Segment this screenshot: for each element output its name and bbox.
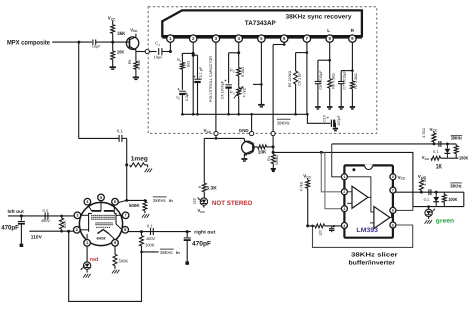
LED green stub [428, 207, 430, 210]
label GND terminal [239, 128, 249, 133]
resistor R2 9.1k [230, 67, 245, 77]
label green [436, 219, 455, 225]
wire tube pin1 drop [86, 246, 88, 262]
svg-text:1K: 1K [436, 164, 442, 171]
LM393 pin 1 [341, 174, 347, 180]
wire collector rail [204, 138, 244, 183]
svg-text:R8 3.3kΩ: R8 3.3kΩ [331, 73, 335, 89]
wire 500K pin9 to ground [114, 266, 116, 269]
svg-text:L: L [327, 28, 330, 33]
ground below R9 [133, 77, 139, 79]
svg-text:4.7kΩ: 4.7kΩ [423, 176, 427, 186]
label right out [194, 229, 215, 235]
node 10K junction [272, 145, 275, 148]
svg-text:7: 7 [392, 189, 394, 193]
wire VCC terminal stub [215, 136, 218, 140]
rail junction [192, 113, 195, 116]
node Hx junction [272, 151, 275, 154]
ground rail inside box [182, 113, 307, 115]
label 38KHz in upper [153, 197, 173, 203]
ground pin5 [258, 105, 264, 107]
label 1K [436, 164, 442, 171]
svg-text:LM393: LM393 [356, 227, 378, 234]
op-amp A triangle [344, 177, 371, 209]
svg-text:C4 1000µF: C4 1000µF [221, 80, 225, 99]
label left out [8, 209, 25, 215]
wire R6 top bend [296, 51, 309, 71]
LED green stereo indicator [425, 209, 435, 217]
svg-text:110V: 110V [31, 234, 43, 240]
node loop left [67, 230, 70, 233]
wire 36K to node [112, 33, 114, 51]
LM393 pin 3 [341, 206, 347, 212]
svg-text:38KHz: 38KHz [451, 136, 463, 141]
pin 2 TA7343AP [190, 35, 197, 42]
svg-text:8: 8 [392, 175, 394, 179]
svg-text:6: 6 [392, 209, 394, 213]
wire diagonal to tube pin6 [118, 200, 127, 202]
label 38KHz in lower [160, 249, 180, 255]
power VCC pullup upper [430, 127, 438, 133]
capacitor 10uF input [92, 40, 102, 49]
node pullup upper [433, 143, 436, 146]
node bias [111, 41, 114, 44]
svg-text:VCC: VCC [422, 155, 430, 161]
wire emitter node [136, 52, 145, 62]
svg-text:buffer/inverter: buffer/inverter [349, 260, 396, 267]
capacitor C4 1000uF [221, 78, 232, 99]
wire 38KHz col below border [272, 136, 274, 153]
capacitor C7 0.015uF [338, 70, 347, 90]
wire R1 branch [182, 53, 193, 55]
label red [90, 257, 98, 263]
svg-text:1: 1 [343, 175, 345, 179]
wire R8 to ground [329, 88, 331, 106]
svg-text:6HS8: 6HS8 [97, 236, 106, 240]
resistor 1meg [130, 163, 148, 168]
ground Q2 emitter [241, 159, 247, 161]
svg-text:2: 2 [343, 190, 345, 194]
capacitor C2 3.3uF [176, 87, 189, 102]
diode clamp upper [445, 144, 451, 158]
node reference [306, 224, 309, 227]
resistor 100K left [60, 215, 67, 233]
label VCC LM393 pin8 [398, 175, 406, 181]
LED red stereo indicator [81, 262, 91, 270]
transistor Q1 emitter follower [126, 34, 138, 52]
svg-text:4.7kΩ: 4.7kΩ [242, 87, 246, 97]
ground 500K pin9 [112, 270, 119, 274]
wire pin5 column [260, 42, 262, 104]
svg-text:100µF: 100µF [337, 114, 341, 125]
ground 1meg [145, 169, 152, 173]
resistor 100K lower [442, 192, 446, 206]
label 500K grid [129, 203, 141, 208]
wire MPX vertical drop [78, 42, 80, 139]
capacitor 0.1 inline lower [424, 189, 431, 202]
svg-text:GND: GND [239, 128, 249, 133]
svg-text:100K: 100K [63, 220, 67, 229]
dashed box 38KHz sync recovery [148, 7, 377, 134]
pin 4 TA7343AP [235, 35, 242, 42]
wire GND stub to rail [251, 114, 253, 131]
tube internal electrodes [80, 201, 123, 240]
capacitor C6 0.015uF [315, 70, 324, 90]
ground R4 [271, 169, 276, 172]
pin 6 TA7343AP [281, 35, 288, 42]
power VCC pullup lower [418, 174, 426, 180]
resistor R4 330k [267, 152, 279, 165]
rail junction [250, 113, 253, 116]
svg-text:C6 0.015µF: C6 0.015µF [319, 70, 323, 90]
wire red LED to ground [86, 269, 88, 272]
svg-text:100K: 100K [448, 197, 458, 202]
svg-text:4.7kΩ: 4.7kΩ [137, 60, 141, 70]
wire lower row3 [413, 192, 464, 208]
wire pin7R row [394, 191, 449, 194]
svg-text:VCC: VCC [130, 27, 138, 33]
rail junction [181, 113, 184, 116]
label 38KHz sync recovery [286, 14, 353, 21]
svg-text:500K: 500K [119, 258, 129, 263]
node pin8 [328, 59, 331, 62]
svg-text:5: 5 [392, 223, 394, 227]
wire 38KHz column [272, 45, 274, 132]
svg-text:right out: right out [194, 229, 215, 235]
tube pin 4 [84, 198, 91, 205]
LM393 pin 5 [390, 222, 396, 228]
wire pin7 column [306, 42, 308, 114]
node MPX junction [77, 41, 80, 44]
capacitor C1 10uF [154, 41, 164, 60]
svg-text:100K: 100K [145, 242, 155, 247]
wire pin6 bend to 38KHz line [273, 42, 284, 44]
op-amp U1 TA7343AP body [162, 10, 362, 37]
terminal VCC circle [214, 131, 218, 135]
ground C10 [333, 129, 338, 131]
wire rail to C10 [307, 114, 330, 123]
stub pin5 [253, 83, 263, 86]
label POLYSTROLL CAPACITOR [209, 56, 213, 102]
label 470pF right [192, 241, 211, 248]
pin label L [327, 28, 330, 33]
filter VCC 1K row upper [422, 155, 459, 161]
tube V1 6HS8 envelope [79, 202, 122, 245]
resistor 100K right [140, 232, 144, 254]
svg-text:VCC: VCC [204, 128, 212, 134]
svg-text:C3 1 µF: C3 1 µF [199, 66, 203, 80]
wire right out [128, 231, 191, 233]
wire cap to grid column [122, 138, 127, 200]
node pin2 R1 branch [192, 52, 195, 55]
capacitor 470pF left [18, 216, 25, 247]
svg-text:R9: R9 [128, 60, 132, 65]
wire green LED ground stub [428, 217, 430, 219]
LM393 pin 7 [390, 187, 396, 193]
resistor R6 220k [288, 71, 301, 88]
capacitor 0.1 reference [329, 225, 335, 232]
pin 5 TA7343AP [258, 35, 265, 42]
resistor R8 3.3k [328, 60, 336, 89]
wire pin5R loop [313, 225, 413, 247]
diode clamp lower [433, 192, 439, 206]
svg-text:0.1: 0.1 [147, 224, 153, 229]
wire C6 to ground [317, 84, 319, 106]
svg-text:R6 220kΩ: R6 220kΩ [288, 71, 292, 88]
wire R9 to ground [135, 69, 137, 76]
wire pin4 column [238, 42, 240, 67]
wire R6 to rail [295, 84, 297, 114]
label Vcc terminal [204, 128, 212, 134]
transistor Q2 38KHz amp [242, 138, 254, 158]
node 1meg junction [125, 163, 128, 166]
label 1meg [131, 156, 148, 163]
node 120 row loop [311, 225, 314, 228]
wire LED stub [203, 205, 205, 207]
resistor 4.7k pullup lower [419, 176, 427, 192]
svg-text:120: 120 [318, 230, 322, 236]
rail junction [227, 113, 230, 116]
ground 500K grid [142, 214, 149, 218]
svg-text:9.1kΩ: 9.1kΩ [241, 67, 245, 77]
ground red LED [83, 274, 90, 278]
comparator U2 LM393 body [344, 164, 393, 238]
svg-text:3.3µF: 3.3µF [185, 91, 189, 101]
resistor 500K grid [143, 199, 147, 213]
wire MPX horizontal to 0.1 cap [79, 137, 119, 139]
capacitor 0.1 coupling [117, 129, 124, 142]
net label MPX composite [7, 39, 50, 46]
wire pin8 column [329, 42, 331, 60]
svg-text:10K: 10K [117, 50, 125, 55]
rail junction [306, 113, 309, 116]
wire C2 to rail [181, 94, 183, 114]
wire C7 branch [341, 71, 352, 82]
wire 3.3K to LED [203, 192, 205, 198]
tube pin 9 [112, 240, 119, 247]
svg-text:1kΩ: 1kΩ [186, 61, 190, 68]
resistor R7 3.3k [350, 71, 358, 89]
rail junction [237, 113, 240, 116]
svg-text:4: 4 [343, 224, 345, 228]
node pin9 [351, 69, 354, 72]
wire v1 to LM393 pin1 [332, 144, 343, 177]
tube pin 6 [112, 198, 119, 205]
svg-text:VCC: VCC [197, 208, 205, 214]
terminal GND circle [250, 131, 254, 135]
op-amp B triangle [370, 197, 393, 228]
svg-text:4.7kΩ: 4.7kΩ [300, 181, 304, 191]
svg-text:LED: LED [193, 197, 197, 204]
LM393 pin 4 [341, 223, 347, 229]
svg-text:36K: 36K [117, 31, 125, 37]
resistor 4.7k pullup upper [422, 128, 436, 144]
wire to C1 [149, 51, 156, 53]
svg-text:in: in [176, 250, 180, 255]
ground C6 [315, 107, 320, 109]
svg-text:0.1: 0.1 [433, 149, 439, 154]
wire H1 top [332, 143, 457, 145]
wire 110V [29, 230, 74, 232]
svg-text:R7 3.3kΩ: R7 3.3kΩ [354, 73, 358, 89]
svg-text:4.7kΩ: 4.7kΩ [422, 128, 426, 138]
resistor 100K upper [454, 144, 458, 158]
ground R8 [327, 107, 332, 109]
capacitor 0.1 400V left [41, 208, 50, 223]
ground R7 [350, 107, 355, 109]
svg-text:3: 3 [343, 207, 345, 211]
svg-text:38KHz: 38KHz [277, 121, 290, 126]
svg-text:470pF: 470pF [192, 241, 211, 248]
wire Hx 38KHz to comparators [273, 152, 413, 206]
svg-text:red: red [90, 257, 98, 263]
label 38KHz upper right [451, 136, 463, 141]
label 38KHz internal [277, 119, 291, 125]
capacitor 470pF right [184, 232, 191, 265]
wire C6 branch [318, 60, 330, 81]
svg-text:10µF: 10µF [92, 44, 102, 49]
resistor 120 [308, 224, 343, 236]
label TA7343AP [245, 20, 277, 27]
tube pin 1 [84, 240, 91, 247]
svg-text:VCC: VCC [398, 175, 406, 181]
svg-text:38KHz: 38KHz [160, 250, 173, 255]
svg-text:C7 0.015µF: C7 0.015µF [343, 70, 347, 90]
svg-text:38KHz sync recovery: 38KHz sync recovery [286, 14, 353, 21]
LM393 pin 2 [341, 189, 347, 195]
tube pin 7 [122, 212, 129, 219]
pin 1 TA7343AP [167, 35, 174, 42]
wire C7 to ground [340, 84, 342, 106]
wire left out [8, 215, 75, 217]
svg-text:10K: 10K [258, 150, 267, 155]
resistor R1 1k [177, 53, 190, 69]
svg-text:1: 1 [158, 43, 160, 47]
svg-text:100K: 100K [459, 155, 469, 160]
label Vcc below LED [197, 208, 205, 214]
wire grid to 500K [127, 199, 147, 201]
wire bottom loop [69, 231, 142, 301]
svg-text:0.1: 0.1 [43, 208, 49, 213]
pin 7 TA7343AP [303, 35, 310, 42]
tube pin 5 [98, 194, 105, 201]
tube pin 3 [74, 212, 81, 219]
svg-text:NOT STEREO: NOT STEREO [212, 200, 253, 207]
label 38KHz slicer [351, 252, 398, 259]
wire 38KHz in lower [142, 251, 159, 253]
ground below 10K [110, 67, 116, 69]
svg-text:C5 1 µF: C5 1 µF [297, 72, 301, 86]
svg-text:POLYSTROLL CAPACITOR: POLYSTROLL CAPACITOR [209, 56, 213, 102]
wire 10K to ground [112, 60, 114, 67]
wire C3 to rail [197, 82, 199, 114]
pin label R [351, 28, 355, 33]
capacitor C10 100uF [323, 114, 341, 127]
wire R2 to R5 [238, 76, 240, 88]
capacitor C3 1uF [193, 66, 203, 82]
label 6HS8 [97, 236, 106, 240]
wire R4 to ground [272, 164, 274, 168]
pin 3 TA7343AP [212, 35, 219, 42]
wire cap to bias node [96, 41, 130, 43]
label 110V [31, 234, 43, 240]
node pin4 C4 branch [237, 51, 240, 54]
svg-text:left out: left out [8, 209, 25, 215]
resistor 36K [111, 25, 126, 37]
wire pin2 column [192, 42, 194, 114]
wire pin9 column [351, 42, 353, 70]
power VCC reference [303, 174, 311, 180]
node pin1 C1 [169, 50, 172, 53]
node left out cap [20, 214, 23, 217]
node right out 100K [140, 230, 143, 233]
node pin6 [283, 43, 286, 46]
resistor 10K bias [111, 50, 125, 60]
ground C7 [339, 107, 344, 109]
wire C10 to ground [334, 123, 335, 128]
LED NOT STEREO [193, 197, 208, 205]
wire R7 to ground [351, 89, 353, 106]
label buffer/inverter [349, 260, 396, 267]
wire R5 to rail [238, 96, 240, 115]
ground green LED [425, 220, 432, 224]
wire g1 to LM393 pin2 [321, 152, 343, 191]
node grid junction [125, 199, 128, 202]
svg-text:38KHz slicer: 38KHz slicer [351, 252, 398, 259]
svg-text:470pF: 470pF [1, 225, 19, 232]
svg-text:TA7343AP: TA7343AP [245, 20, 277, 27]
svg-text:3.3K: 3.3K [206, 185, 217, 191]
capacitor 0.1 400V right [147, 224, 153, 236]
power VCC Q1 collector [130, 27, 138, 33]
svg-text:38KHz: 38KHz [153, 198, 166, 203]
wire g2 to LM393 pin3 [325, 152, 343, 208]
resistor 500K pin9 [113, 254, 128, 265]
wire pin6R loop [395, 207, 413, 211]
wire C4 to rail [228, 88, 230, 115]
svg-text:1meg: 1meg [131, 156, 148, 163]
resistor R9 4.7k [128, 60, 141, 70]
wire C4 branch [229, 53, 239, 84]
wire R1 to C2 [181, 69, 183, 90]
pin 9 TA7343AP [349, 35, 356, 42]
node Hx g1 [320, 151, 323, 154]
label 100K right [145, 242, 155, 247]
label 100K lower [448, 197, 458, 202]
wire C3 branch [193, 55, 197, 79]
svg-text:MPX composite: MPX composite [7, 39, 50, 46]
label 100K upper [459, 155, 469, 160]
LM393 pin 8 [390, 174, 396, 180]
resistor R5 4.7k variable [230, 86, 246, 98]
power VCC Q1 bias [108, 16, 116, 25]
svg-text:38KHz: 38KHz [450, 184, 462, 189]
svg-text:0.1: 0.1 [117, 129, 124, 134]
rail junction [294, 113, 297, 116]
svg-text:10µF: 10µF [154, 55, 164, 60]
svg-text:400V: 400V [146, 236, 155, 241]
wire pin3 column polystyrol [215, 42, 217, 131]
rail junction [196, 113, 199, 116]
resistor 3.3K [198, 183, 217, 192]
terminal 38KHz circle [271, 131, 275, 135]
wire MPX input [52, 41, 92, 43]
svg-text:500K: 500K [129, 203, 141, 208]
wire C1 to pin1 [162, 42, 170, 51]
capacitor 0.1 inline H1 [433, 141, 441, 154]
node pin2 C3 branch [192, 54, 195, 57]
tube pin 2 [74, 227, 81, 234]
